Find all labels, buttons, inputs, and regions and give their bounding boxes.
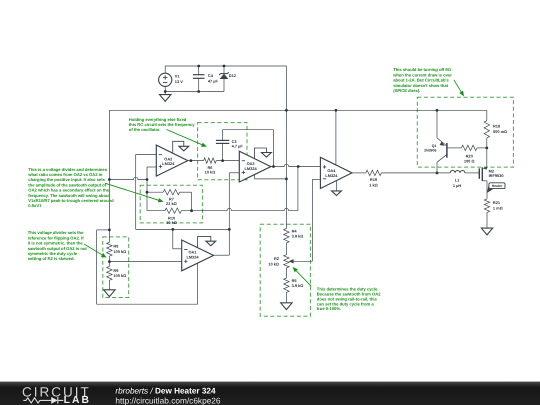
svg-text:This is a voltage divider and: This is a voltage divider and determines… [27,167,114,208]
svg-text:10 kΩ: 10 kΩ [268,261,279,266]
svg-text:LM324: LM324 [162,161,175,166]
svg-text:1 kΩ: 1 kΩ [369,182,378,187]
svg-text:V1: V1 [175,74,181,79]
svg-text:R18: R18 [493,124,501,129]
svg-text:http://circuitlab.com/c6kpe26: http://circuitlab.com/c6kpe26 [115,395,221,405]
svg-text:100 kΩ: 100 kΩ [113,249,126,254]
svg-text:LAB: LAB [64,395,91,405]
svg-text:500 mΩ: 500 mΩ [493,129,507,134]
svg-text:D12: D12 [229,73,237,78]
svg-text:2N3906: 2N3906 [424,149,436,153]
svg-text:LM324: LM324 [186,254,199,259]
svg-text:4.7 µF: 4.7 µF [232,144,244,149]
svg-text:Heater: Heater [492,184,503,188]
svg-text:3.9 kΩ: 3.9 kΩ [292,234,304,239]
svg-text:1 µH: 1 µH [453,183,461,188]
svg-text:R8: R8 [113,244,119,249]
svg-text:100 Ω: 100 Ω [464,159,475,164]
svg-text:LM324: LM324 [325,173,338,178]
svg-text:10 kΩ: 10 kΩ [205,170,216,175]
svg-text:R2: R2 [274,256,280,261]
svg-text:3.9 kΩ: 3.9 kΩ [292,283,304,288]
svg-text:IRF9530: IRF9530 [489,173,504,178]
svg-text:Q1: Q1 [432,144,437,148]
svg-text:R5: R5 [292,278,298,283]
svg-text:47 µF: 47 µF [208,79,219,84]
svg-text:10 kΩ: 10 kΩ [166,220,177,225]
svg-text:R19: R19 [370,177,378,182]
svg-text:R4: R4 [292,228,298,233]
svg-text:1 mΩ: 1 mΩ [493,205,503,210]
svg-text:rbroberts / Dew Heater 324: rbroberts / Dew Heater 324 [115,386,216,395]
svg-text:100 kΩ: 100 kΩ [113,273,126,278]
svg-text:13 V: 13 V [175,79,183,84]
svg-text:LM324: LM324 [245,166,258,171]
svg-text:22 kΩ: 22 kΩ [166,201,177,206]
svg-text:R21: R21 [493,200,501,205]
svg-text:C4: C4 [208,73,214,78]
